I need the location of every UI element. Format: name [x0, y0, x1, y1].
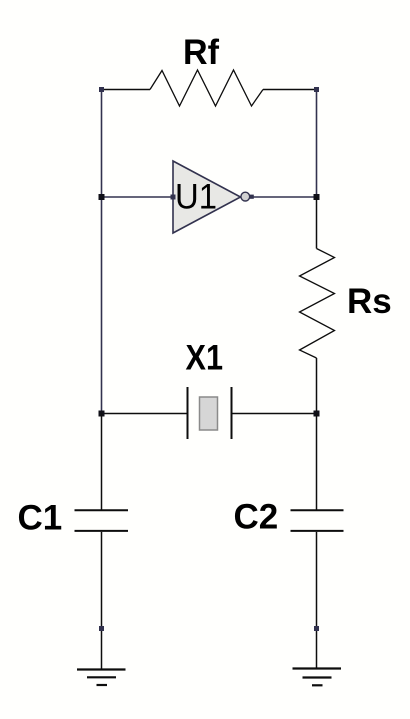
node U1 input tee: [99, 194, 105, 200]
svg-text:C1: C1: [18, 499, 63, 538]
node top-left junction: [99, 87, 104, 92]
node C1 ground pin dot: [99, 626, 104, 631]
ground right bar3: [312, 684, 323, 686]
crystal X1 left plate: [187, 387, 189, 439]
node C2 ground pin dot: [314, 626, 319, 631]
ground right bar2: [303, 676, 332, 678]
wire Rs to crystal node: [316, 358, 318, 414]
ground left bar1: [77, 668, 126, 670]
op-amp U1 output bubble: [241, 192, 250, 201]
wire C1 to ground: [101, 532, 103, 670]
wire left rail to C1: [101, 414, 103, 510]
wire right rail to Rs: [316, 197, 318, 249]
crystal X1 body rect: [200, 397, 218, 430]
wire crystal left lead: [102, 413, 188, 415]
pin U1 output pin square: [250, 195, 254, 199]
capacitor C2 top plate: [291, 509, 344, 511]
capacitor C1 bottom plate: [75, 530, 129, 532]
wire top-left horizontal segment: [102, 89, 151, 91]
capacitor C2 bottom plate: [291, 530, 344, 532]
node U1 output tee: [314, 194, 320, 200]
wire crystal right lead: [232, 413, 317, 415]
wire right rail to C2: [316, 414, 318, 510]
wire U1 output: [251, 196, 317, 198]
crystal X1 right plate: [231, 387, 233, 439]
node crystal left tee: [99, 411, 105, 417]
wire left rail: [101, 90, 103, 414]
resistor Rf zigzag: [150, 70, 263, 106]
wire top-right horizontal segment: [263, 89, 317, 91]
ground left bar2: [87, 676, 116, 678]
wire right rail upper: [316, 90, 318, 198]
node top-right junction: [314, 87, 319, 92]
resistor Rs zigzag: [300, 249, 335, 359]
capacitor C1 top plate: [75, 509, 129, 511]
wire U1 input: [102, 196, 174, 198]
svg-text:Rf: Rf: [183, 33, 219, 72]
svg-text:C2: C2: [234, 498, 279, 537]
op-amp U1 inverter triangle: [173, 161, 241, 233]
wire C2 to ground: [316, 532, 318, 669]
svg-text:U1: U1: [175, 178, 217, 217]
ground left bar3: [97, 684, 108, 686]
ground right bar1: [293, 667, 342, 669]
svg-text:Rs: Rs: [347, 282, 392, 321]
svg-text:X1: X1: [186, 338, 224, 377]
pin U1 input pin square: [171, 195, 176, 200]
node crystal right tee: [314, 411, 320, 417]
